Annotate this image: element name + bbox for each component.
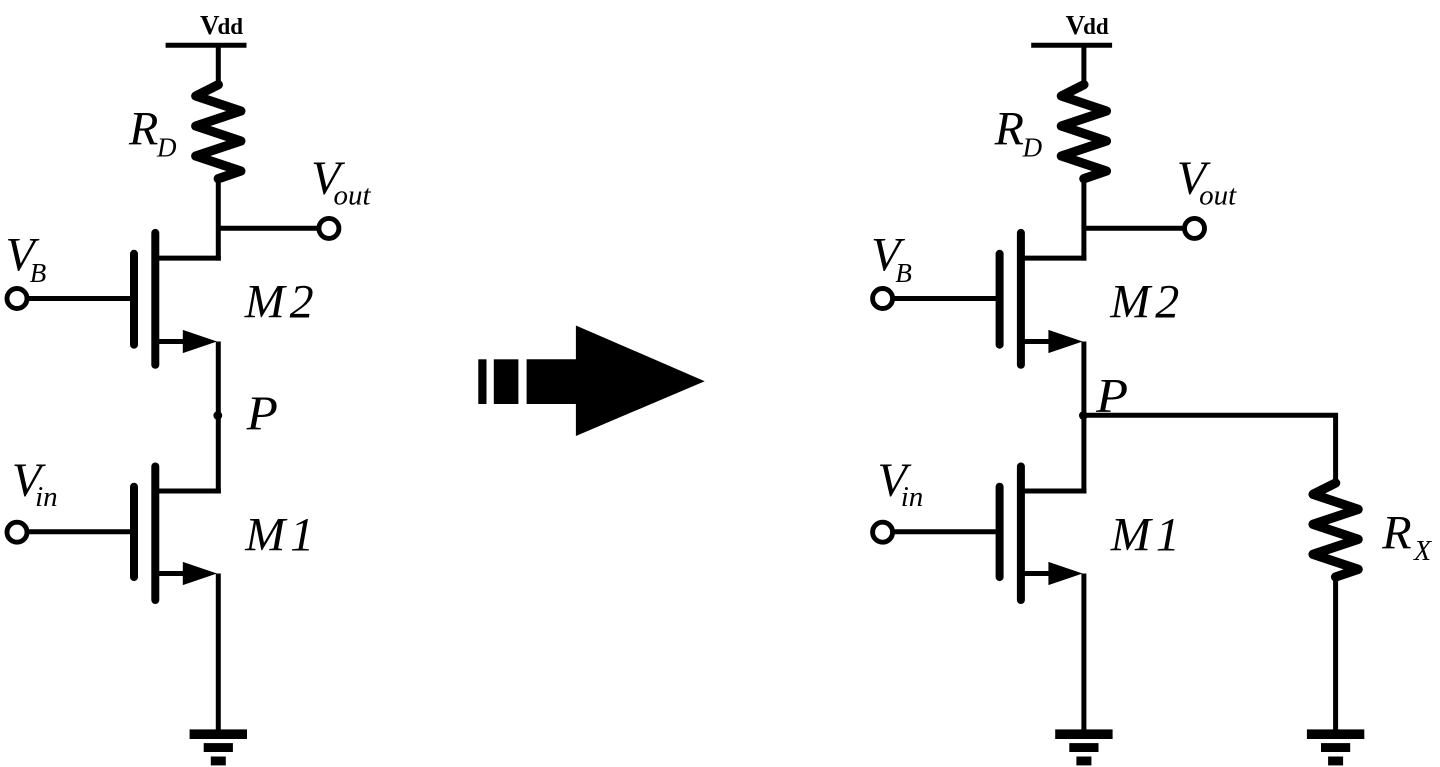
wire M1 source to ground (right) [1081, 574, 1086, 735]
wire M2 source to node P to M1 drain (right) [1081, 342, 1086, 494]
svg-text:R: R [994, 103, 1024, 156]
svg-text:dd: dd [1083, 14, 1109, 39]
wire RD to M2 drain (right) [1081, 179, 1086, 261]
svg-text:B: B [895, 258, 912, 288]
ground (RX) [1307, 729, 1364, 739]
M2 source wire (left) [155, 339, 191, 344]
Vout terminal (left) [319, 218, 339, 238]
ground (right) [1055, 729, 1112, 739]
VB label (left) [6, 228, 47, 288]
M1 drain wire (right) [1021, 489, 1087, 494]
wire RD to M2 drain (left) [216, 179, 221, 261]
M2 source arrow (right) [1048, 330, 1082, 353]
transistor M1 gate bar (right) [996, 487, 1004, 577]
transformation arrow dash 2 [494, 359, 519, 404]
wire node P to RX [1084, 415, 1336, 484]
VB terminal (right) [873, 289, 893, 309]
svg-text:R: R [128, 103, 158, 156]
M1 drain wire (left) [155, 489, 221, 494]
Vin gate wire (left) [28, 529, 134, 534]
svg-text:M1: M1 [244, 508, 319, 561]
M2 source arrow (left) [183, 330, 217, 353]
RX value label [1381, 506, 1432, 567]
VB gate wire (right) [894, 296, 1000, 301]
M1 source arrow (left) [183, 562, 217, 585]
svg-text:P: P [246, 388, 278, 441]
svg-text:D: D [156, 133, 177, 163]
RD value label (left) [128, 103, 177, 163]
Vin terminal (left) [7, 522, 27, 542]
svg-text:in: in [35, 481, 58, 513]
wire to Vout terminal (left) [218, 226, 318, 231]
transistor M2 channel bar (left) [151, 233, 159, 365]
resistor RX [1313, 483, 1358, 577]
svg-text:dd: dd [218, 14, 244, 39]
transformation arrow body [527, 326, 705, 437]
transistor M1 gate bar (left) [130, 487, 138, 577]
wire M1 source to ground (left) [216, 574, 221, 735]
Vout label (left) [311, 152, 371, 211]
M1 source wire (right) [1021, 571, 1057, 576]
transistor M1 channel bar (right) [1017, 467, 1025, 601]
VB label (right) [871, 228, 912, 288]
Vdd label (right) [1066, 10, 1109, 40]
RD value label (right) [994, 103, 1043, 163]
Vin label (left) [12, 454, 58, 513]
svg-text:M2: M2 [1109, 275, 1184, 328]
svg-text:out: out [1199, 179, 1237, 211]
svg-text:B: B [30, 258, 47, 288]
VB terminal (left) [7, 289, 27, 309]
VB gate wire (left) [28, 296, 134, 301]
transformation arrow dash 1 [478, 359, 486, 404]
Vdd power rail (left) [166, 43, 247, 48]
svg-text:in: in [901, 481, 924, 513]
svg-text:out: out [334, 179, 372, 211]
node P (left) [213, 411, 222, 420]
Vdd label (left) [200, 10, 243, 40]
svg-text:R: R [1381, 506, 1411, 559]
svg-text:D: D [1022, 133, 1043, 163]
wire Vdd to RD (right) [1081, 45, 1086, 87]
wire M2 source to node P to M1 drain (left) [216, 342, 221, 494]
M2 source wire (right) [1021, 339, 1057, 344]
wire Vdd to RD (left) [216, 45, 221, 87]
transistor M1 channel bar (left) [151, 467, 159, 601]
ground (left) [190, 729, 247, 739]
Vin gate wire (right) [894, 529, 1000, 534]
Vout label (right) [1177, 152, 1237, 211]
resistor RD (right) [1061, 85, 1106, 179]
svg-text:M1: M1 [1110, 508, 1185, 561]
transistor M2 channel bar (right) [1017, 233, 1025, 365]
node P (right) [1079, 411, 1088, 420]
wire RX to ground [1333, 577, 1338, 734]
M2 drain wire (left) [155, 256, 221, 261]
transistor M2 gate bar (left) [130, 254, 138, 345]
Vin label (right) [878, 454, 924, 513]
M2 drain wire (right) [1021, 256, 1087, 261]
Vdd power rail (right) [1031, 43, 1112, 48]
svg-text:X: X [1413, 536, 1432, 567]
transistor M2 gate bar (right) [996, 254, 1004, 345]
Vout terminal (right) [1185, 218, 1205, 238]
svg-text:M2: M2 [244, 275, 319, 328]
M1 source arrow (right) [1048, 562, 1082, 585]
M1 source wire (left) [155, 571, 191, 576]
Vin terminal (right) [873, 522, 893, 542]
resistor RD (left) [196, 85, 241, 179]
wire to Vout terminal (right) [1084, 226, 1184, 231]
